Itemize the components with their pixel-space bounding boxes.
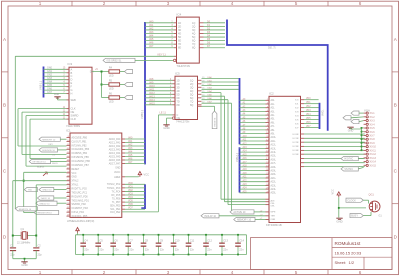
svg-text:VA0: VA0 xyxy=(149,20,154,23)
svg-text:RX_PC5: RX_PC5 xyxy=(111,195,121,197)
svg-text:6: 6 xyxy=(359,270,362,275)
svg-text:VCC: VCC xyxy=(332,189,335,194)
wire+vertical trunk for KEY net down left side xyxy=(14,56,16,209)
wire R5 to LED flag xyxy=(120,84,125,86)
svg-text:22n: 22n xyxy=(190,247,195,251)
svg-text:ADC6_PA6: ADC6_PA6 xyxy=(109,159,121,162)
svg-text:VA15: VA15 xyxy=(149,102,155,105)
svg-text:AREF: AREF xyxy=(114,176,121,179)
svg-text:G: G xyxy=(71,88,73,92)
svg-text:E: E xyxy=(71,81,73,85)
svg-text:OE: OE xyxy=(52,155,56,157)
svg-text:OC0A/AIN1_PB3: OC0A/AIN1_PB3 xyxy=(72,148,90,151)
net flag KEYBOARD xyxy=(15,207,37,211)
svg-text:A2L: A2L xyxy=(271,107,276,110)
LED net flag 1 xyxy=(125,69,133,73)
svg-text:VD6: VD6 xyxy=(306,122,311,124)
svg-text:SWRD: SWRD xyxy=(71,114,79,118)
svg-text:5Q: 5Q xyxy=(192,36,195,39)
svg-text:7Q: 7Q xyxy=(192,43,195,46)
svg-text:TER: TER xyxy=(271,216,276,218)
svg-text:VSYNC: VSYNC xyxy=(344,168,353,171)
svg-text:VA5: VA5 xyxy=(149,38,154,41)
svg-text:T0_PD6: T0_PD6 xyxy=(112,198,121,200)
svg-text:A20L: A20L xyxy=(271,173,277,176)
wire XTAL1 to crystal network xyxy=(13,181,67,247)
capacitor C11 xyxy=(186,234,195,256)
net flag CLOCK left xyxy=(36,201,67,205)
capacitor C8 xyxy=(141,234,150,256)
svg-text:GND: GND xyxy=(21,263,27,267)
svg-text:22n: 22n xyxy=(207,247,212,251)
net flag RESISTOR xyxy=(34,211,59,215)
svg-text:ROMulus1st: ROMulus1st xyxy=(335,241,361,246)
svg-text:OE: OE xyxy=(71,110,75,114)
net flag HSYNC xyxy=(341,157,364,161)
capacitor C9 xyxy=(156,234,165,256)
svg-text:XTAL1: XTAL1 xyxy=(72,184,80,187)
svg-text:C9: C9 xyxy=(160,238,164,242)
svg-text:74HC574N: 74HC574N xyxy=(177,64,190,68)
svg-text:BUSY: BUSY xyxy=(351,215,358,218)
svg-text:4D: 4D xyxy=(178,32,181,35)
svg-text:6D: 6D xyxy=(178,40,181,43)
svg-text:A18: A18 xyxy=(243,165,248,168)
svg-text:VD5: VD5 xyxy=(306,118,311,120)
ground for IC3 SEB xyxy=(54,93,61,100)
svg-text:6Q: 6Q xyxy=(192,40,195,43)
svg-text:LED: LED xyxy=(109,101,114,104)
svg-text:GND: GND xyxy=(115,168,120,170)
svg-text:ADC5/DE_PB0: ADC5/DE_PB0 xyxy=(72,136,88,139)
IC5 74HC573 latch xyxy=(145,71,202,123)
svg-text:A22: A22 xyxy=(243,179,248,182)
svg-text:X3-1: X3-1 xyxy=(370,112,376,115)
svg-text:UC1R: UC1R xyxy=(293,138,299,140)
svg-text:B: B xyxy=(71,71,73,75)
svg-text:VD2: VD2 xyxy=(128,189,133,192)
svg-text:VD2: VD2 xyxy=(306,106,311,108)
svg-text:2: 2 xyxy=(103,270,106,275)
svg-text:2D: 2D xyxy=(178,25,181,28)
svg-text:/SS SRS2 SL: /SS SRS2 SL xyxy=(106,60,122,63)
svg-text:CLOCK: CLOCK xyxy=(347,199,356,202)
connector X3 (VGA) xyxy=(364,108,377,167)
svg-text:VD0: VD0 xyxy=(128,182,133,185)
svg-text:IC1: IC1 xyxy=(66,128,71,132)
svg-text:OBR: OBR xyxy=(271,219,276,221)
VCC arrow for capacitor rail xyxy=(76,228,80,235)
svg-text:A13: A13 xyxy=(243,146,248,149)
capacitor C5 xyxy=(95,234,104,256)
title block xyxy=(251,238,393,270)
svg-text:LED: LED xyxy=(109,75,114,78)
svg-text:VD0: VD0 xyxy=(306,98,311,100)
svg-text:8D: 8D xyxy=(177,104,180,107)
svg-text:VD3: VD3 xyxy=(128,192,133,195)
svg-text:C10: C10 xyxy=(175,238,180,242)
svg-text:HSYNC: HSYNC xyxy=(344,158,353,161)
svg-text:8Q: 8Q xyxy=(192,47,195,50)
resistor R6 xyxy=(109,93,120,104)
svg-text:A22L: A22L xyxy=(271,181,277,184)
IC1 ATMEGA16M1 microcontroller xyxy=(66,128,122,223)
VCC arrow near oscillator xyxy=(332,189,341,197)
svg-text:RESET: RESET xyxy=(72,169,80,171)
svg-text:3: 3 xyxy=(167,1,170,6)
svg-text:INT2/AIN_PB2: INT2/AIN_PB2 xyxy=(72,144,88,147)
svg-text:74HC 595N: 74HC 595N xyxy=(66,124,80,128)
svg-text:ICP1A_PD4: ICP1A_PD4 xyxy=(72,211,85,214)
IC4 74HC574 latch xyxy=(145,12,204,67)
svg-text:RXD/TTL_PC0: RXD/TTL_PC0 xyxy=(72,188,88,190)
svg-text:A1L: A1L xyxy=(271,103,276,106)
svg-text:OC2B/INT_PD3: OC2B/INT_PD3 xyxy=(72,208,89,210)
svg-text:VD5: VD5 xyxy=(128,200,133,203)
net flag MEMORY left xyxy=(39,137,67,141)
main vertical bus VMB (data/address) xyxy=(140,22,145,209)
svg-text:OC0B/SS_PB4: OC0B/SS_PB4 xyxy=(72,153,88,155)
svg-text:VD1: VD1 xyxy=(306,102,311,104)
svg-text:4: 4 xyxy=(231,1,234,6)
svg-text:ADC4_PA4: ADC4_PA4 xyxy=(109,152,121,155)
svg-text:4Q: 4Q xyxy=(192,32,195,35)
svg-text:A6L: A6L xyxy=(271,121,276,124)
svg-text:D: D xyxy=(71,78,73,82)
svg-text:VA1: VA1 xyxy=(149,24,154,27)
ground below oscillator vcc rail xyxy=(336,218,342,223)
svg-text:A0L: A0L xyxy=(271,99,276,102)
svg-text:X3-12: X3-12 xyxy=(370,153,377,156)
svg-text:VD1: VD1 xyxy=(128,185,133,188)
svg-text:B: B xyxy=(3,103,6,108)
svg-text:VA6: VA6 xyxy=(149,42,154,45)
capacitor C12 xyxy=(203,234,212,256)
svg-text:X3-13: X3-13 xyxy=(370,157,377,160)
svg-text:22n: 22n xyxy=(99,247,104,251)
svg-text:TOSC1_PC3: TOSC1_PC3 xyxy=(107,188,121,190)
svg-text:C13: C13 xyxy=(223,238,228,242)
net flag VSYNC xyxy=(341,167,364,171)
wires IC5 lower outputs turning down as control trunks xyxy=(202,90,270,212)
capacitor C2 xyxy=(33,244,42,258)
svg-text:ADC7_PA7: ADC7_PA7 xyxy=(109,162,121,165)
svg-text:1Q: 1Q xyxy=(192,22,195,25)
svg-text:22.1184MHz: 22.1184MHz xyxy=(17,241,31,244)
svg-text:T1_PD7: T1_PD7 xyxy=(112,202,121,204)
crystal Q1 xyxy=(12,227,37,244)
svg-text:VD7: VD7 xyxy=(306,126,311,128)
svg-text:16.06.15 20:03: 16.06.15 20:03 xyxy=(335,251,362,256)
svg-text:A16L: A16L xyxy=(271,158,277,161)
svg-text:KEYBULE 10: KEYBULE 10 xyxy=(33,162,47,164)
svg-text:A16: A16 xyxy=(243,157,248,160)
svg-text:VD3: VD3 xyxy=(306,110,311,112)
svg-text:Q1: Q1 xyxy=(21,227,25,231)
svg-text:UC4R: UC4R xyxy=(293,150,299,152)
LED net flags to X3 RGB pins xyxy=(343,111,364,124)
svg-text:Sheet:: Sheet: xyxy=(335,260,347,265)
svg-text:A10L: A10L xyxy=(271,136,277,139)
capacitor C14 xyxy=(235,234,244,256)
svg-text:X3-9: X3-9 xyxy=(370,142,376,145)
svg-text:K6T4008C1B: K6T4008C1B xyxy=(266,223,282,227)
svg-text:1: 1 xyxy=(39,270,42,275)
svg-text:MEMORY 10: MEMORY 10 xyxy=(237,219,252,222)
svg-text:A18L: A18L xyxy=(271,166,277,169)
svg-text:RESETS: RESETS xyxy=(214,117,216,126)
svg-text:A19L: A19L xyxy=(271,170,277,173)
svg-text:A21: A21 xyxy=(243,176,248,179)
svg-text:GND02 10: GND02 10 xyxy=(39,203,50,205)
svg-text:A4L: A4L xyxy=(271,114,276,117)
svg-text:KEY 11: KEY 11 xyxy=(158,53,167,56)
address bus VMA left of IC2 xyxy=(235,78,240,193)
net flag BUSY xyxy=(350,212,371,218)
svg-text:8D: 8D xyxy=(178,47,181,50)
svg-text:7D: 7D xyxy=(178,43,181,46)
wire trunk with junction left of IC1 xyxy=(23,172,67,212)
svg-text:A14: A14 xyxy=(243,150,248,153)
wires IC2 data pins to data bus stub xyxy=(301,98,319,128)
ground for crystal xyxy=(13,258,36,267)
svg-text:22n: 22n xyxy=(175,247,180,251)
svg-text:22p: 22p xyxy=(38,253,43,256)
svg-text:A8L: A8L xyxy=(271,129,276,132)
svg-text:ADC1_PA1: ADC1_PA1 xyxy=(109,141,121,144)
wire R4 to LED flag xyxy=(120,71,125,73)
capacitor C6 xyxy=(110,234,119,256)
wire ISOLATOR flag to IC2 xyxy=(219,215,269,217)
capacitor C10 xyxy=(171,234,180,256)
wires IC1 PD pins to lower bus xyxy=(122,182,145,210)
svg-text:VD7: VD7 xyxy=(128,207,133,210)
wires IC5 outputs to address bus xyxy=(202,76,239,90)
svg-text:KEY: KEY xyxy=(49,144,54,146)
svg-text:A19: A19 xyxy=(243,168,248,171)
wires from IC3 control pins routed left/down to IC1 xyxy=(18,109,67,169)
wires IC1 PA pins to bus xyxy=(122,137,145,165)
svg-text:OC1B/SCK_PB7: OC1B/SCK_PB7 xyxy=(72,165,90,167)
svg-text:ATMEGA16M1-DIP(/3): ATMEGA16M1-DIP(/3) xyxy=(67,219,94,223)
oscillator QG1 xyxy=(369,193,383,217)
svg-text:C8: C8 xyxy=(145,238,149,242)
svg-text:VA3: VA3 xyxy=(149,31,154,34)
svg-text:UC0R: UC0R xyxy=(293,134,299,136)
svg-text:A23L: A23L xyxy=(271,184,277,187)
svg-text:IC5: IC5 xyxy=(175,71,180,75)
svg-text:5: 5 xyxy=(295,270,298,275)
svg-text:TOSC2_PC2: TOSC2_PC2 xyxy=(107,184,121,186)
svg-text:X3-4: X3-4 xyxy=(370,123,376,126)
svg-text:MEMORY 10: MEMORY 10 xyxy=(42,139,56,141)
svg-text:TXD1/AIN2_PD1: TXD1/AIN2_PD1 xyxy=(72,199,90,202)
svg-text:1: 1 xyxy=(39,1,42,6)
svg-text:A15: A15 xyxy=(243,153,248,156)
IC3 control pins xyxy=(63,69,94,127)
svg-text:VMB [..]: VMB [..] xyxy=(140,109,144,119)
svg-text:A21L: A21L xyxy=(271,177,277,180)
svg-text:IC4: IC4 xyxy=(177,12,182,16)
capacitor C13 xyxy=(219,234,228,256)
wire from IC3 DH output xyxy=(92,68,109,97)
svg-text:C12: C12 xyxy=(207,238,212,242)
net flag ISOLATOR xyxy=(201,214,219,218)
svg-text:A15L: A15L xyxy=(271,155,277,158)
svg-text:SEB: SEB xyxy=(71,98,76,102)
svg-text:CLKOUT_PB1: CLKOUT_PB1 xyxy=(72,141,88,143)
svg-text:VA4: VA4 xyxy=(149,35,154,38)
svg-text:C14: C14 xyxy=(239,238,244,242)
svg-text:GND: GND xyxy=(336,219,342,223)
svg-text:X3-2: X3-2 xyxy=(370,116,376,119)
svg-text:H: H xyxy=(71,92,73,96)
wire VCC to oscillator xyxy=(338,197,366,217)
svg-text:VD4: VD4 xyxy=(128,196,133,199)
svg-text:SDA_PE0: SDA_PE0 xyxy=(110,205,121,208)
svg-text:2: 2 xyxy=(103,1,106,6)
svg-text:IC2: IC2 xyxy=(269,91,274,95)
svg-text:ISOLAT 10: ISOLAT 10 xyxy=(204,215,216,218)
svg-text:C: C xyxy=(71,74,73,78)
svg-text:A5L: A5L xyxy=(271,118,276,121)
resistor R4 xyxy=(109,67,120,78)
wire XTAL2 to crystal network xyxy=(36,185,66,247)
svg-text:GN7: GN7 xyxy=(47,91,53,94)
svg-text:REMOTE 10: REMOTE 10 xyxy=(19,209,32,211)
wire LE to IC5 C pin xyxy=(158,112,175,115)
svg-text:22n: 22n xyxy=(160,247,165,251)
svg-text:TXD/LRC_PC1: TXD/LRC_PC1 xyxy=(72,192,88,194)
svg-text:3Q: 3Q xyxy=(192,29,195,32)
svg-text:6: 6 xyxy=(359,1,362,6)
VCC arrow right of IC1 xyxy=(122,172,149,177)
svg-text:VCC: VCC xyxy=(72,173,77,175)
svg-text:A17L: A17L xyxy=(271,162,277,165)
svg-text:A13L: A13L xyxy=(271,147,277,150)
resistor R5 xyxy=(109,80,120,91)
svg-text:VD4: VD4 xyxy=(306,114,311,116)
svg-text:A: A xyxy=(71,67,73,71)
svg-text:A25L: A25L xyxy=(271,192,277,195)
svg-text:ADC0_PA0: ADC0_PA0 xyxy=(109,138,121,141)
svg-text:SHLD: SHLD xyxy=(52,163,58,165)
svg-text:A12: A12 xyxy=(243,142,248,145)
svg-text:OE: OE xyxy=(177,117,181,120)
wire flag to IC4 OE pin with bubble xyxy=(135,59,176,61)
svg-text:8Q: 8Q xyxy=(190,104,193,107)
net flag CLOCK right xyxy=(346,198,369,203)
svg-text:22n: 22n xyxy=(239,247,244,251)
svg-text:C4: C4 xyxy=(84,238,88,242)
svg-text:A24: A24 xyxy=(243,187,248,190)
svg-text:4: 4 xyxy=(231,270,234,275)
svg-text:GND: GND xyxy=(163,126,169,130)
svg-text:VCC: VCC xyxy=(144,172,150,176)
vertical net flag xyxy=(212,111,217,129)
svg-text:A24L: A24L xyxy=(271,188,277,191)
net flag DATA xyxy=(37,196,66,200)
svg-text:1D: 1D xyxy=(178,22,181,25)
svg-text:RESISTOR 10: RESISTOR 10 xyxy=(38,213,53,215)
svg-text:UC3R: UC3R xyxy=(293,146,299,148)
svg-text:A3L: A3L xyxy=(271,110,276,113)
svg-text:D[0..7]: D[0..7] xyxy=(268,47,276,50)
svg-text:C7: C7 xyxy=(129,238,133,242)
svg-text:BOUNCE 10: BOUNCE 10 xyxy=(42,150,55,152)
svg-text:IC3: IC3 xyxy=(68,62,73,66)
svg-text:VNB [..]: VNB [..] xyxy=(39,81,43,90)
svg-text:AVCC: AVCC xyxy=(114,171,121,174)
ground tie for X3 pins xyxy=(347,127,363,151)
svg-text:ADC2_PA2: ADC2_PA2 xyxy=(109,145,121,148)
svg-text:VMA [..]: VMA [..] xyxy=(235,153,239,162)
capacitor C7 xyxy=(125,234,134,256)
svg-text:QG1: QG1 xyxy=(369,193,375,196)
svg-text:A10: A10 xyxy=(243,135,248,138)
svg-text:X3-5: X3-5 xyxy=(370,127,376,130)
svg-text:22n: 22n xyxy=(129,247,134,251)
svg-text:A23: A23 xyxy=(243,183,248,186)
svg-text:X3-10: X3-10 xyxy=(370,146,377,149)
IC5 OE pin to ground xyxy=(163,117,175,130)
svg-text:C5: C5 xyxy=(99,238,103,242)
svg-text:A9L: A9L xyxy=(271,133,276,136)
net flag SS SRS2 xyxy=(103,58,135,62)
capacitor rail wires xyxy=(76,235,247,255)
svg-text:A14L: A14L xyxy=(271,151,277,154)
net flag KEYBLOCK xyxy=(29,159,66,163)
svg-text:CLR: CLR xyxy=(71,117,76,121)
svg-text:ADC5_PA5: ADC5_PA5 xyxy=(109,155,121,158)
svg-text:ACTIVE 10: ACTIVE 10 xyxy=(233,211,246,214)
svg-text:BLANK: BLANK xyxy=(37,165,45,168)
svg-text:OC1A/MISO_PB6: OC1A/MISO_PB6 xyxy=(72,160,91,163)
svg-text:A12L: A12L xyxy=(271,144,277,147)
wire R6 to LED flag xyxy=(120,97,125,99)
svg-text:C11: C11 xyxy=(190,238,195,242)
wire IC1 bottom-right to LE trunk xyxy=(122,115,159,212)
svg-text:VD6: VD6 xyxy=(128,203,133,206)
IC2 K6T4008 SRAM xyxy=(240,91,301,226)
svg-text:B: B xyxy=(394,103,397,108)
data bus stub right of IC2 xyxy=(320,103,325,129)
svg-text:A20: A20 xyxy=(243,172,248,175)
net flag BOUNCE xyxy=(39,148,67,152)
svg-text:LED: LED xyxy=(109,88,114,91)
svg-text:X3-14: X3-14 xyxy=(370,161,377,164)
svg-text:5: 5 xyxy=(295,1,298,6)
svg-text:X3-11: X3-11 xyxy=(370,149,377,152)
svg-text:X3-8: X3-8 xyxy=(370,138,376,141)
LED net flag 2 xyxy=(125,82,133,86)
svg-text:X3-15: X3-15 xyxy=(370,164,377,167)
reset arrow symbol xyxy=(43,172,47,176)
wires IC2 right to VGA connector xyxy=(301,134,365,167)
svg-text:GND: GND xyxy=(54,93,60,96)
svg-text:22n: 22n xyxy=(84,247,89,251)
svg-text:TXD: TXD xyxy=(28,190,33,192)
wire IC5 9th output to vertical flag xyxy=(198,106,215,111)
svg-text:CLK: CLK xyxy=(71,107,76,111)
svg-text:5D: 5D xyxy=(178,36,181,39)
svg-text:GND: GND xyxy=(72,177,77,179)
bus from IC4 over the top to right side xyxy=(227,20,328,131)
wire KEY to IC4 pin 11 xyxy=(15,53,176,56)
net flag LED left xyxy=(39,188,67,192)
svg-text:DACK 10: DACK 10 xyxy=(41,197,51,200)
svg-text:ICP1/MOSI_PB5: ICP1/MOSI_PB5 xyxy=(72,157,90,159)
